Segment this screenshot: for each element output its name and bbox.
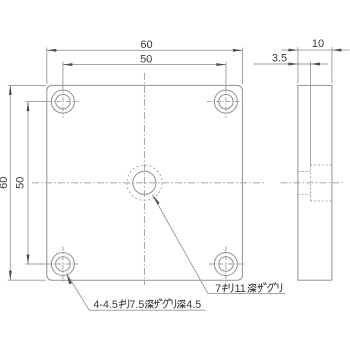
dim 50 line	[63, 64, 226, 66]
leader line center hole	[152, 195, 285, 294]
svg-text:4.5: 4.5	[186, 299, 201, 311]
center counterbore dashed circle	[127, 165, 162, 200]
svg-text:60: 60	[140, 39, 152, 51]
note text 4-4.5 kiri 7.5 fuka zaguri fuka 4.5	[94, 299, 202, 311]
hole bottom-right	[214, 252, 237, 275]
hole top-left center lines	[48, 101, 79, 103]
hole bottom-left	[51, 252, 74, 275]
side view outline	[298, 85, 332, 280]
svg-text:50: 50	[140, 53, 152, 65]
svg-text:11: 11	[235, 283, 246, 295]
center hole circle	[133, 171, 156, 194]
dim 60 line	[47, 49, 243, 51]
left dim 50 line	[27, 102, 29, 264]
svg-text:7.5: 7.5	[129, 299, 144, 311]
vertical center line	[143, 73, 145, 285]
svg-text:3.5: 3.5	[272, 52, 287, 64]
leader line corner holes	[67, 274, 206, 311]
left dim 50 extension lines	[26, 102, 48, 264]
leader arrow center hole	[152, 195, 159, 205]
dim 3.5 extension line	[310, 62, 312, 165]
dim 50 extension lines	[63, 62, 226, 88]
side view hidden counterbore lines	[311, 165, 332, 201]
dim 10 arrows	[288, 49, 298, 52]
side view center line	[280, 182, 343, 184]
dim 60 extension lines	[47, 48, 243, 85]
hole top-right	[214, 90, 237, 113]
svg-text:60: 60	[0, 177, 10, 189]
dim 50 arrows	[63, 63, 73, 66]
dim 10 line	[282, 49, 350, 51]
leader arrow corner holes	[67, 274, 72, 285]
horizontal center line	[32, 182, 266, 184]
svg-text:4-4.5: 4-4.5	[94, 299, 118, 311]
dim 3.5 line	[254, 63, 329, 65]
hole bottom-right center lines	[209, 263, 245, 265]
note text 7 kiri 11 fuka zaguri	[215, 283, 282, 295]
svg-text:50: 50	[15, 177, 27, 189]
left dim 60 arrows	[9, 85, 12, 95]
hole top-right center lines	[207, 101, 242, 103]
left dim 60 extension lines	[8, 85, 46, 280]
dim 3.5 arrows	[288, 63, 298, 66]
dim 10 extension lines	[298, 47, 332, 83]
svg-text:7: 7	[215, 283, 221, 295]
svg-text:10: 10	[312, 38, 324, 50]
hole top-left	[51, 90, 74, 113]
plate outline front view	[47, 85, 243, 280]
hole bottom-left center lines	[48, 263, 79, 265]
left dim 50 arrows	[27, 102, 30, 112]
dim 60 arrows	[47, 49, 57, 52]
left dim 60 line	[9, 85, 11, 280]
side view hidden drill lines	[298, 172, 311, 195]
